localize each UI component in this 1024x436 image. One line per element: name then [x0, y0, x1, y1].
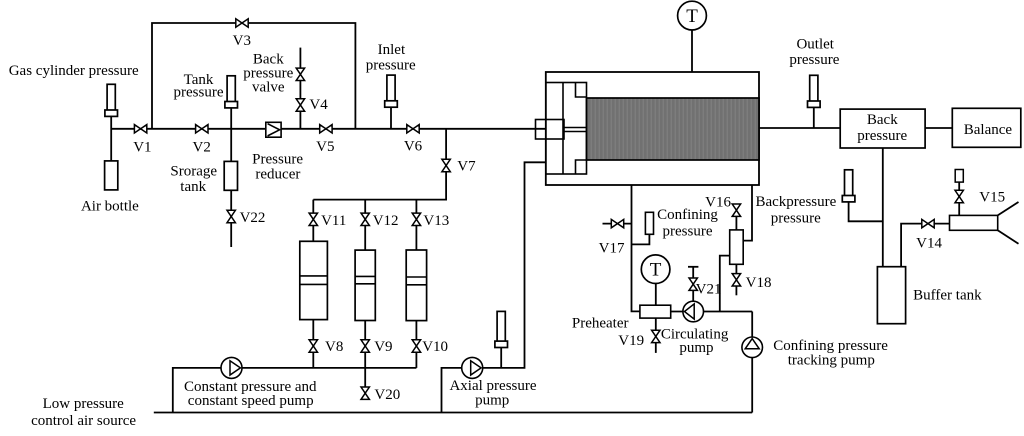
svg-text:V19: V19	[618, 333, 644, 349]
svg-text:pump: pump	[475, 393, 509, 409]
svg-text:Buffer tank: Buffer tank	[913, 288, 982, 304]
svg-text:V18: V18	[746, 275, 772, 291]
svg-text:pressure: pressure	[663, 223, 713, 239]
svg-text:V14: V14	[916, 236, 942, 252]
svg-text:V2: V2	[193, 139, 211, 155]
svg-text:constant speed pump: constant speed pump	[188, 393, 314, 409]
svg-text:tank: tank	[180, 179, 206, 195]
svg-text:reducer: reducer	[255, 167, 300, 183]
svg-text:V3: V3	[233, 33, 251, 49]
svg-text:pressure: pressure	[174, 85, 224, 101]
svg-text:V13: V13	[423, 213, 449, 229]
svg-text:Low pressure: Low pressure	[43, 396, 125, 412]
svg-text:V17: V17	[599, 241, 625, 257]
svg-text:T: T	[650, 260, 662, 281]
svg-text:tracking pump: tracking pump	[788, 353, 875, 369]
svg-text:V15: V15	[979, 190, 1005, 206]
svg-text:V7: V7	[457, 159, 476, 175]
svg-text:pressure: pressure	[789, 52, 839, 68]
svg-text:V22: V22	[240, 210, 266, 226]
svg-text:Preheater: Preheater	[572, 316, 629, 332]
svg-text:Gas cylinder pressure: Gas cylinder pressure	[9, 63, 139, 79]
svg-text:T: T	[686, 6, 698, 27]
svg-text:control air source: control air source	[31, 413, 136, 429]
svg-text:Inlet: Inlet	[378, 42, 406, 58]
svg-text:V21: V21	[696, 282, 722, 298]
svg-text:Back: Back	[867, 112, 898, 128]
svg-text:V20: V20	[374, 387, 400, 403]
svg-text:pressure: pressure	[771, 211, 821, 227]
svg-text:Axial pressure: Axial pressure	[449, 378, 536, 394]
svg-text:Confining pressure: Confining pressure	[773, 338, 888, 354]
svg-text:Balance: Balance	[964, 122, 1013, 138]
svg-text:Backpressure: Backpressure	[755, 194, 836, 210]
svg-text:Air bottle: Air bottle	[81, 199, 139, 215]
svg-text:pressure: pressure	[366, 57, 416, 73]
svg-text:V11: V11	[321, 213, 346, 229]
svg-text:pressure: pressure	[857, 128, 907, 144]
svg-text:Outlet: Outlet	[796, 37, 834, 53]
svg-text:V1: V1	[133, 139, 151, 155]
svg-text:valve: valve	[252, 80, 285, 96]
svg-text:pump: pump	[679, 340, 713, 356]
svg-text:V6: V6	[404, 139, 423, 155]
svg-text:V4: V4	[309, 97, 328, 113]
svg-text:V16: V16	[705, 194, 731, 210]
svg-text:Pressure: Pressure	[252, 152, 303, 168]
svg-text:V12: V12	[373, 213, 399, 229]
svg-text:V5: V5	[316, 139, 334, 155]
svg-text:V10: V10	[422, 339, 448, 355]
svg-text:Srorage: Srorage	[170, 163, 217, 179]
svg-text:V8: V8	[325, 339, 343, 355]
svg-text:V9: V9	[374, 339, 392, 355]
